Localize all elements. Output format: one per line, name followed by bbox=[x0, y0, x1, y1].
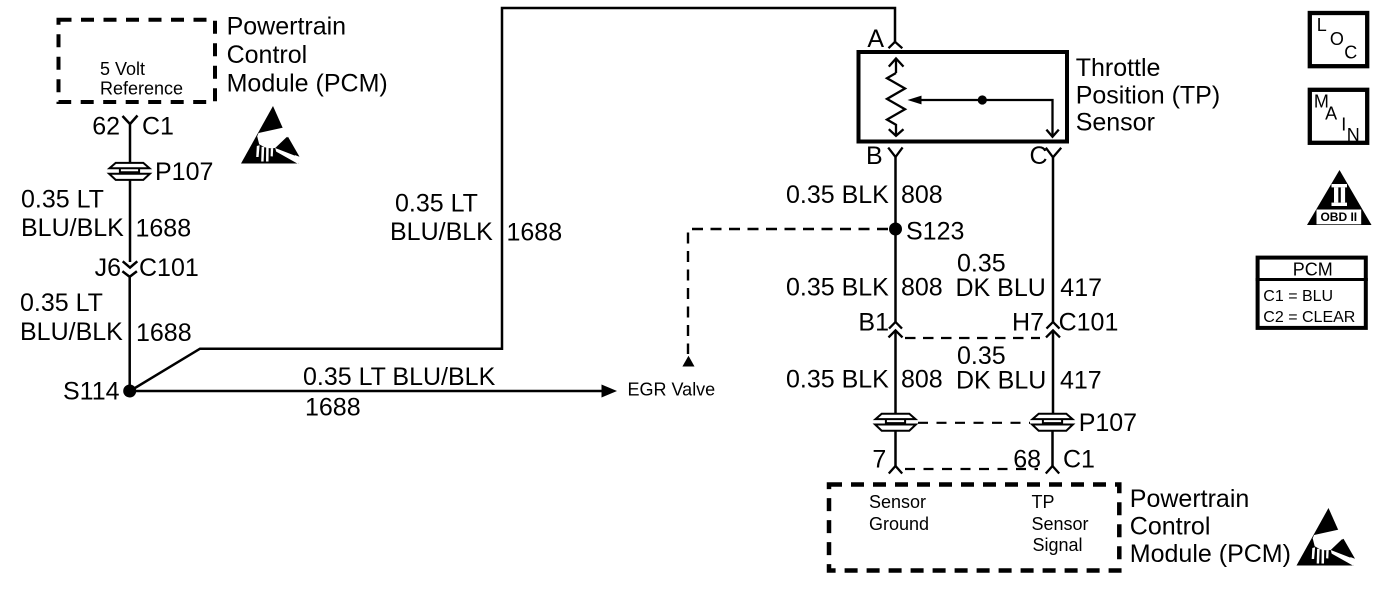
svg-text:417: 417 bbox=[1060, 367, 1102, 395]
svg-text:808: 808 bbox=[901, 366, 943, 394]
svg-text:P107: P107 bbox=[155, 158, 213, 186]
splice S123 bbox=[889, 223, 902, 236]
svg-text:Throttle: Throttle bbox=[1076, 54, 1161, 82]
svg-text:A: A bbox=[1325, 104, 1337, 124]
svg-text:DK BLU: DK BLU bbox=[956, 367, 1046, 395]
wire label 0.35 BLK 808 (2) bbox=[786, 274, 943, 302]
dashed line pin7-pin68 bbox=[905, 468, 1038, 470]
svg-text:1688: 1688 bbox=[305, 394, 361, 422]
svg-text:0.35 LT: 0.35 LT bbox=[20, 289, 103, 317]
svg-text:Signal: Signal bbox=[1033, 535, 1083, 555]
svg-text:I: I bbox=[1341, 115, 1346, 135]
svg-text:B1: B1 bbox=[858, 309, 889, 337]
wire label 0.35 LT BLU/BLK 1688 (lower left) bbox=[20, 289, 192, 347]
LOC icon box bbox=[1310, 13, 1367, 66]
svg-text:Sensor: Sensor bbox=[1076, 109, 1155, 137]
connector B1 C101 (fork + arrow) bbox=[889, 322, 903, 337]
svg-text:808: 808 bbox=[901, 274, 943, 302]
svg-text:Module (PCM): Module (PCM) bbox=[227, 70, 388, 98]
svg-text:TP: TP bbox=[1032, 492, 1055, 512]
svg-text:O: O bbox=[1330, 29, 1344, 49]
svg-text:0.35 BLK: 0.35 BLK bbox=[786, 366, 889, 394]
wire label 0.35 BLK 808 (1) bbox=[786, 181, 943, 209]
terminal B fork bbox=[888, 147, 902, 157]
svg-text:C101: C101 bbox=[1059, 309, 1119, 337]
wire label 0.35 DK BLU 417 (upper) bbox=[956, 250, 1103, 303]
svg-text:1688: 1688 bbox=[507, 219, 563, 247]
svg-text:0.35 LT: 0.35 LT bbox=[21, 186, 104, 214]
label Throttle Position (TP) Sensor bbox=[1076, 54, 1220, 137]
wire S114 up-and-over to TP sensor A bbox=[130, 8, 895, 391]
wire C to H7 bbox=[1052, 157, 1055, 322]
wire H7 to P107 bbox=[1052, 330, 1055, 414]
svg-text:BLU/BLK: BLU/BLK bbox=[390, 218, 493, 246]
terminal fork pin 7 bbox=[889, 466, 902, 474]
svg-text:Control: Control bbox=[227, 41, 308, 69]
terminal C fork bbox=[1046, 148, 1061, 158]
connector terminal 62 C1 (female fork) bbox=[123, 116, 138, 125]
Throttle Position (TP) Sensor box bbox=[859, 52, 1068, 142]
wire J6 to S114 bbox=[128, 277, 131, 391]
potentiometer wiper arm bbox=[908, 95, 1059, 136]
PCM module box (top left, dashed) bbox=[59, 20, 216, 102]
MAIN icon box bbox=[1310, 90, 1367, 145]
ESD symbol (bottom) bbox=[1297, 508, 1356, 566]
wire 62 to P107 bbox=[129, 124, 132, 164]
label Sensor Ground bbox=[869, 492, 929, 534]
svg-text:808: 808 bbox=[901, 181, 943, 209]
wire label 0.35 BLK 808 (3) bbox=[786, 366, 943, 394]
PCM connector color table bbox=[1256, 258, 1368, 328]
ESD symbol (top) bbox=[241, 106, 300, 164]
svg-text:C: C bbox=[1344, 43, 1357, 63]
wire P107 to J6 bbox=[129, 180, 132, 263]
wire S114 to EGR Valve (arrow) bbox=[130, 390, 602, 393]
svg-text:Sensor: Sensor bbox=[869, 492, 926, 512]
wire B to B1 bbox=[894, 157, 897, 322]
svg-text:J6: J6 bbox=[95, 254, 121, 282]
svg-text:0.35 BLK: 0.35 BLK bbox=[786, 274, 889, 302]
arrowhead to EGR Valve bbox=[602, 385, 618, 398]
svg-text:S123: S123 bbox=[906, 218, 964, 246]
inline connector P107 (B wire) bbox=[875, 414, 916, 431]
svg-text:L: L bbox=[1317, 15, 1327, 35]
wire label 0.35 LT BLU/BLK 1688 (EGR run) bbox=[303, 363, 496, 422]
dashed line B1-H7 bbox=[905, 337, 1040, 339]
svg-text:A: A bbox=[867, 25, 884, 53]
svg-text:C101: C101 bbox=[139, 254, 199, 282]
connector H7 C101 (fork + arrow) bbox=[1046, 322, 1060, 337]
svg-text:Module (PCM): Module (PCM) bbox=[1130, 540, 1291, 568]
svg-text:OBD II: OBD II bbox=[1320, 210, 1357, 224]
svg-text:C2 = CLEAR: C2 = CLEAR bbox=[1263, 309, 1355, 326]
svg-text:N: N bbox=[1347, 125, 1360, 145]
PCM module box (bottom, dashed) bbox=[829, 485, 1119, 571]
svg-text:417: 417 bbox=[1060, 274, 1102, 302]
connector J6 C101 (male arrow into female fork) bbox=[122, 261, 137, 277]
svg-text:C1 = BLU: C1 = BLU bbox=[1263, 288, 1333, 305]
svg-text:0.35 LT BLU/BLK: 0.35 LT BLU/BLK bbox=[303, 363, 496, 391]
wire P107 to PCM pin 68 bbox=[1051, 430, 1054, 466]
svg-text:Position (TP): Position (TP) bbox=[1076, 82, 1220, 110]
svg-text:BLU/BLK: BLU/BLK bbox=[21, 214, 124, 242]
svg-text:EGR Valve: EGR Valve bbox=[628, 379, 716, 399]
inline connector P107 (left) bbox=[109, 163, 150, 180]
label TP Sensor Signal bbox=[1032, 492, 1089, 555]
svg-text:Powertrain: Powertrain bbox=[1130, 485, 1250, 513]
svg-text:PCM: PCM bbox=[1293, 260, 1333, 280]
svg-text:Powertrain: Powertrain bbox=[227, 13, 347, 41]
label: 5 Volt Reference bbox=[100, 59, 183, 98]
svg-text:B: B bbox=[866, 142, 883, 170]
wire B1 to P107 bbox=[894, 330, 897, 414]
svg-text:0.35 LT: 0.35 LT bbox=[395, 190, 478, 218]
svg-text:5 Volt: 5 Volt bbox=[100, 59, 145, 79]
svg-text:C1: C1 bbox=[1063, 446, 1095, 474]
svg-text:H7: H7 bbox=[1012, 309, 1044, 337]
inline connector P107 (C wire) bbox=[1032, 414, 1073, 431]
dashed wire arrowhead (up triangle) bbox=[682, 356, 694, 367]
svg-text:BLU/BLK: BLU/BLK bbox=[20, 318, 123, 346]
svg-text:Sensor: Sensor bbox=[1032, 514, 1089, 534]
svg-text:P107: P107 bbox=[1079, 409, 1137, 437]
wire label 0.35 DK BLU 417 (lower) bbox=[956, 342, 1102, 395]
svg-text:Control: Control bbox=[1130, 513, 1211, 541]
svg-text:Reference: Reference bbox=[100, 79, 183, 99]
wire label 0.35 LT BLU/BLK 1688 (upper left) bbox=[21, 186, 191, 243]
svg-text:S114: S114 bbox=[63, 378, 120, 406]
terminal fork pin 68 bbox=[1046, 466, 1059, 474]
svg-text:0.35 BLK: 0.35 BLK bbox=[786, 181, 889, 209]
label Powertrain Control Module (PCM) bottom bbox=[1130, 485, 1291, 568]
splice S114 bbox=[123, 385, 136, 398]
OBD II icon triangle bbox=[1307, 170, 1372, 225]
svg-text:1688: 1688 bbox=[136, 215, 192, 243]
svg-text:1688: 1688 bbox=[136, 319, 192, 347]
terminal A fork bbox=[889, 42, 903, 48]
svg-text:C: C bbox=[1030, 142, 1048, 170]
svg-text:62: 62 bbox=[92, 113, 120, 141]
svg-text:DK BLU: DK BLU bbox=[956, 274, 1046, 302]
wire P107 to PCM pin 7 bbox=[894, 430, 897, 466]
svg-text:C1: C1 bbox=[142, 113, 174, 141]
svg-text:7: 7 bbox=[872, 446, 886, 474]
potentiometer resistor element bbox=[887, 59, 905, 136]
svg-text:Ground: Ground bbox=[869, 514, 929, 534]
dashed wire S123 to EGR valve bbox=[688, 229, 888, 354]
label: Powertrain Control Module (PCM) top bbox=[227, 13, 388, 98]
wire label 0.35 LT BLU/BLK 1688 (riser) bbox=[390, 190, 562, 247]
dashed line P107 pair bbox=[918, 422, 1030, 424]
